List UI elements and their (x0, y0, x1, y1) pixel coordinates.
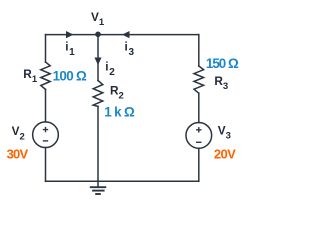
svg-text:1 k Ω: 1 k Ω (104, 105, 135, 120)
svg-text:20V: 20V (214, 147, 236, 162)
svg-text:100 Ω: 100 Ω (53, 69, 87, 84)
svg-text:150 Ω: 150 Ω (206, 56, 239, 71)
svg-text:30V: 30V (7, 146, 29, 161)
